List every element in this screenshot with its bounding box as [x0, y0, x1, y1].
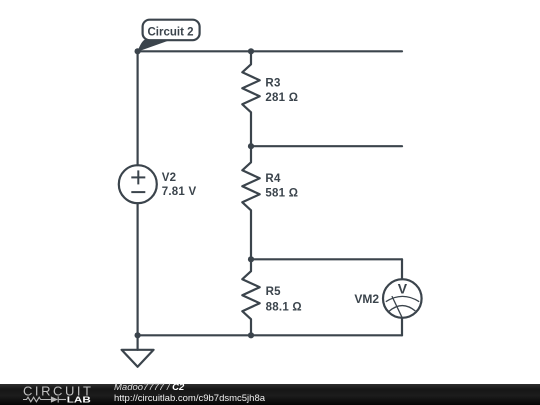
svg-text:7.81 V: 7.81 V: [162, 186, 197, 198]
label V2 value: [162, 172, 197, 198]
node label Circuit 2 tail: [137, 40, 171, 52]
resistor R4: [242, 146, 259, 259]
svg-text:VM2: VM2: [354, 292, 379, 306]
resistor R5: [242, 259, 259, 335]
svg-text:LAB: LAB: [67, 395, 92, 404]
label R4 value: [265, 173, 298, 200]
voltage source V2 minus sign: [131, 191, 145, 193]
junction node bottom-left: [135, 332, 141, 338]
voltage source V2 circle: [119, 165, 157, 203]
junction node bottom R5: [248, 332, 254, 338]
ground: [122, 335, 154, 367]
svg-text:V2: V2: [162, 172, 177, 184]
CircuitLab logo: [0, 384, 100, 405]
footer bar: [0, 384, 540, 405]
wire VM2 bottom lead: [401, 318, 403, 336]
wire VM2 top lead: [401, 259, 403, 279]
resistor R3: [242, 51, 259, 146]
footer credits: [114, 383, 265, 404]
svg-text:R5: R5: [266, 286, 282, 298]
voltage source V2 plus sign: [131, 170, 145, 192]
wire rail 2: [251, 145, 402, 147]
voltmeter VM2 dial: [386, 296, 419, 317]
wire top rail: [138, 50, 402, 52]
label R3 value: [265, 77, 298, 104]
wire left vertical upper: [137, 51, 139, 165]
voltmeter VM2 circle: [383, 279, 422, 318]
svg-text:R3: R3: [265, 77, 280, 89]
junction node top-left: [135, 48, 141, 54]
svg-text:88.1 Ω: 88.1 Ω: [266, 301, 302, 313]
label R5 value: [266, 286, 302, 313]
svg-text:R4: R4: [265, 173, 281, 185]
svg-text:581 Ω: 581 Ω: [265, 188, 298, 200]
junction node rail2: [248, 143, 254, 149]
wire bottom rail: [138, 334, 402, 336]
svg-text:Circuit 2: Circuit 2: [148, 26, 194, 38]
node label Circuit 2 balloon: [143, 20, 200, 41]
junction node rail1/R3: [248, 48, 254, 54]
junction node rail3: [248, 256, 254, 262]
wire left vertical lower: [137, 203, 139, 335]
wire rail 3: [251, 258, 402, 260]
svg-text:281 Ω: 281 Ω: [265, 92, 298, 104]
svg-text:V: V: [398, 281, 408, 297]
